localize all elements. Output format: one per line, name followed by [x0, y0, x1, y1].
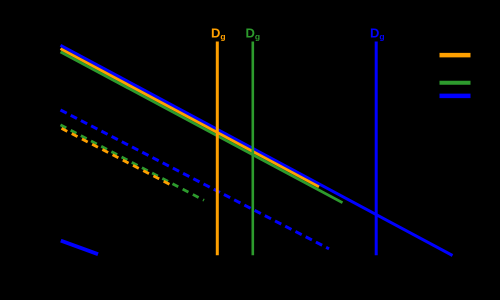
vertical marker line Dg (orange)	[216, 42, 219, 256]
dashed line (blue)	[61, 110, 330, 249]
svg-text:Dg: Dg	[211, 26, 226, 42]
solid line (orange)	[61, 49, 320, 187]
svg-text:Dg: Dg	[370, 26, 385, 42]
vertical marker line Dg (green)	[252, 42, 255, 256]
vertical marker line Dg (blue)	[375, 42, 378, 256]
solid line (green)	[61, 52, 343, 203]
dashed line (orange)	[62, 128, 174, 186]
dashed line (green)	[61, 125, 205, 200]
dotted short segment bottom-left (blue)	[61, 241, 98, 255]
legend sample (blue)	[440, 94, 471, 99]
legend sample (green)	[440, 81, 471, 85]
legend sample (orange)	[440, 53, 471, 58]
solid line n-type (blue)	[61, 45, 453, 255]
svg-text:Dg: Dg	[246, 26, 261, 42]
